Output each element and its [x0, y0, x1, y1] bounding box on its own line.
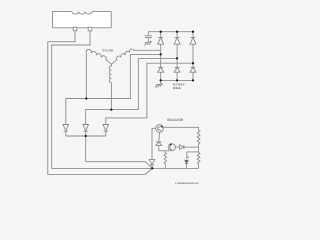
- diode trio D8: [83, 125, 89, 137]
- node stator left lead: [85, 97, 87, 99]
- wire line2 (trio d2 + stator-bottom to col2 riser): [86, 58, 177, 124]
- node col1 top: [160, 31, 162, 33]
- bridge top rail (B+): [148, 31, 193, 33]
- brush 2: [88, 27, 92, 31]
- wire trio to regulator field node: [86, 136, 153, 168]
- node col3 phase: [192, 62, 194, 64]
- wire stator-left lead: [85, 51, 87, 99]
- wire D11 to chain: [184, 146, 199, 148]
- bridge ground: [155, 80, 162, 87]
- TR1 emitter arrow: [170, 143, 172, 145]
- brush 1: [73, 27, 77, 31]
- capacitor C1: [145, 32, 152, 42]
- diode trio D7: [63, 125, 69, 137]
- node col3 bottom: [192, 79, 194, 81]
- trio cathode rail: [66, 135, 106, 137]
- bridge diode D2 top col2: [174, 32, 180, 68]
- capacitor ground: [145, 42, 152, 46]
- diode D11: [180, 145, 184, 149]
- node col2 phase: [176, 57, 178, 59]
- node col2 bottom: [176, 79, 178, 81]
- bridge diode D3 top col3: [190, 32, 196, 68]
- field discharge diode D12: [149, 160, 155, 169]
- wire brush2 to inner left rail to bottom rail: [52, 31, 153, 169]
- regulator left rail: [152, 128, 156, 159]
- wire D10 to TR1: [159, 150, 170, 152]
- wire line3 (trio d3 to col3 riser): [106, 63, 193, 124]
- diode trio D9: [103, 125, 109, 137]
- bottom rail regulator: [152, 167, 198, 169]
- transistor TR2: [156, 124, 164, 132]
- node stator bottom lead: [110, 108, 112, 110]
- stator bottom winding: [109, 64, 111, 109]
- node col1 phase: [160, 53, 162, 55]
- node col2 top: [176, 31, 178, 33]
- wire TR2 to diode D10: [158, 132, 161, 142]
- resistor R3 (chain lower): [197, 147, 200, 168]
- transistor TR1: [168, 144, 175, 151]
- bridge bottom rail: [161, 79, 193, 81]
- svg-text:REGULATOR: REGULATOR: [167, 118, 184, 122]
- wire brush1 to outer left rail to field node: [48, 31, 153, 175]
- zener diode Z1: [185, 152, 189, 169]
- resistor R2 (chain upper): [197, 131, 200, 148]
- bridge diode D6 bottom col3: [190, 67, 196, 80]
- rotor field coil: [72, 12, 92, 15]
- svg-text:© FreeASEStudyGuides.com: © FreeASEStudyGuides.com: [175, 182, 199, 185]
- svg-text:BRIDGE: BRIDGE: [173, 86, 181, 90]
- svg-text:STATOR: STATOR: [102, 48, 114, 52]
- wire zener top: [187, 151, 199, 153]
- stator right winding: [111, 49, 160, 64]
- stator left winding: [86, 49, 111, 64]
- node col3 top: [192, 31, 194, 33]
- diode D10: [156, 142, 162, 151]
- bridge diode D5 bottom col2: [174, 67, 180, 80]
- node trio output: [85, 135, 87, 137]
- bridge diode D4 bottom col1: [158, 67, 164, 80]
- TR2 emitter arrow: [161, 126, 163, 128]
- node col1 bottom: [160, 79, 162, 81]
- wire TR2 emitter to resistor chain top: [163, 127, 199, 131]
- node field: [151, 167, 153, 169]
- bridge diode D1 top col1: [158, 32, 164, 68]
- rotor box: [53, 12, 112, 28]
- junction dots: [85, 31, 195, 170]
- wire line1 (trio d1 + stator-left to col1 riser): [66, 54, 161, 124]
- resistor R1: [164, 151, 166, 169]
